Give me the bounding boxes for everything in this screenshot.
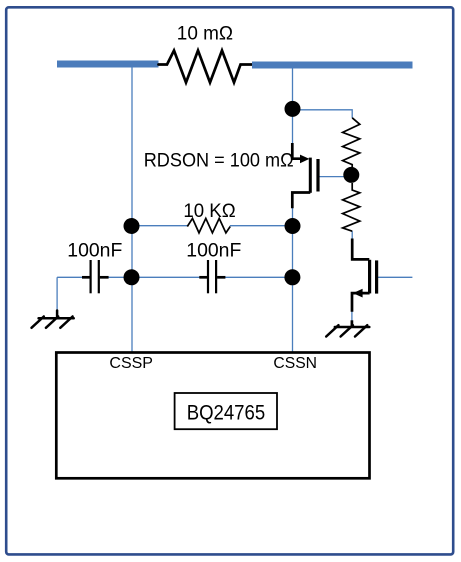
junction dot divider midpoint bbox=[343, 167, 359, 183]
svg-text:100nF: 100nF bbox=[67, 241, 122, 262]
Q2 source black stub to ground bbox=[351, 320, 354, 327]
MOSFET Q2 channel bar bbox=[368, 260, 371, 294]
ground (left) bbox=[32, 311, 74, 328]
MOSFET Q1 gate bar bbox=[316, 159, 319, 192]
wire: Q2 gate stub bbox=[378, 276, 413, 278]
svg-text:CSSN: CSSN bbox=[273, 355, 317, 372]
resistor R1 10 mOhm bbox=[159, 51, 253, 83]
wire: 10K row horizontal left lead bbox=[132, 225, 189, 227]
capacitor C2 100nF bbox=[199, 260, 225, 293]
svg-text:100nF: 100nF bbox=[186, 241, 241, 262]
MOSFET Q1 source lead bbox=[292, 193, 310, 209]
junction dot CSSP / 10K left bbox=[124, 218, 140, 234]
svg-text:RDSON = 100 mΩ: RDSON = 100 mΩ bbox=[144, 150, 294, 171]
resistor R2 10 KOhm zigzag bbox=[187, 218, 230, 233]
MOSFET Q1 channel bar bbox=[309, 158, 312, 193]
MOSFET Q1 drain lead with arrow bbox=[292, 143, 309, 163]
IC BQ24765 outline box bbox=[56, 353, 369, 479]
junction dot node A bbox=[285, 101, 301, 117]
MOSFET Q2 drain lead bbox=[352, 239, 369, 260]
wire: Q1 source down to CSSN bbox=[292, 208, 294, 353]
wire: left rail down to CSSP bbox=[131, 68, 133, 353]
wire: capacitor row ground to C1 bbox=[57, 276, 89, 278]
wire: node A right to divider top bbox=[293, 110, 353, 118]
junction dot CSSN / cap row bbox=[284, 269, 300, 285]
junction dot CSSN / 10K right bbox=[285, 218, 301, 234]
MOSFET Q2 gate bar bbox=[375, 260, 378, 293]
wire: cap row down to left ground bbox=[56, 277, 58, 311]
bus bar right (rail to system) bbox=[252, 62, 413, 69]
svg-text:BQ24765: BQ24765 bbox=[187, 401, 266, 424]
bus bar left (input rail) bbox=[57, 61, 159, 68]
junction dot CSSP / cap row bbox=[124, 269, 140, 285]
svg-text:10 mΩ: 10 mΩ bbox=[177, 24, 233, 45]
wire: divider bottom to Q2 drain bbox=[351, 231, 353, 243]
wire: capacitor row C1 to C2 bbox=[100, 276, 207, 278]
ground (right, under Q2) bbox=[326, 325, 369, 336]
wire: right rail down to Q1 drain bbox=[292, 69, 294, 145]
wire: 10K row horizontal right lead bbox=[230, 225, 293, 227]
part label box BQ24765 bbox=[175, 393, 277, 429]
capacitor C1 100nF bbox=[82, 260, 109, 293]
svg-text:CSSP: CSSP bbox=[109, 355, 153, 372]
resistor Rbottom of divider bbox=[343, 183, 360, 231]
wire: capacitor row C2 to CSSN node bbox=[217, 276, 292, 278]
wire: Q1 gate to divider midpoint bbox=[320, 176, 352, 178]
resistor Rtop of divider bbox=[343, 118, 360, 168]
MOSFET Q2 source lead with arrow bbox=[352, 289, 370, 312]
wire: Q2 source to ground (blue gap) bbox=[351, 311, 353, 321]
